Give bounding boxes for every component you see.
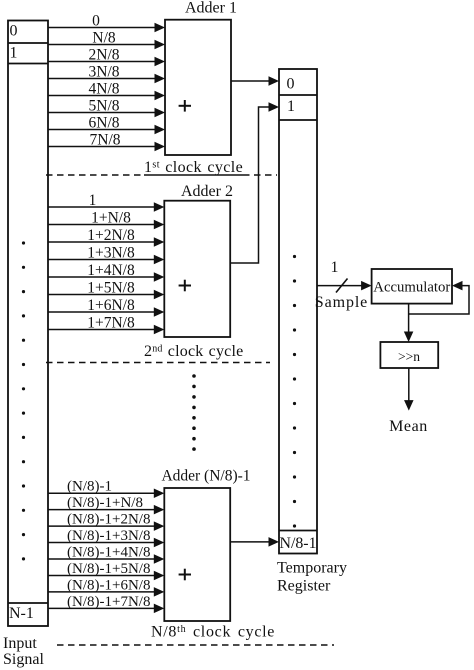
- svg-text:Signal: Signal: [3, 651, 44, 668]
- svg-text:3N/8: 3N/8: [89, 63, 120, 80]
- svg-text:N-1: N-1: [9, 605, 34, 622]
- svg-text:0: 0: [10, 23, 18, 40]
- svg-text:1+2N/8: 1+2N/8: [87, 227, 135, 244]
- svg-text:0: 0: [92, 12, 100, 29]
- svg-text:1: 1: [10, 45, 18, 62]
- svg-text:Adder 2: Adder 2: [181, 183, 233, 200]
- svg-text:(N/8)-1+7N/8: (N/8)-1+7N/8: [67, 594, 150, 610]
- svg-text:(N/8)-1+2N/8: (N/8)-1+2N/8: [67, 512, 150, 528]
- svg-text:7N/8: 7N/8: [90, 131, 121, 148]
- svg-text:(N/8)-1+5N/8: (N/8)-1+5N/8: [67, 561, 150, 577]
- svg-text:Adder 1: Adder 1: [185, 0, 237, 17]
- svg-text:N/8: N/8: [92, 29, 116, 46]
- svg-text:2N/8: 2N/8: [89, 46, 120, 63]
- svg-text:Mean: Mean: [389, 418, 428, 435]
- svg-text:Register: Register: [277, 578, 331, 595]
- svg-text:N/8th clock cycle: N/8th clock cycle: [151, 624, 275, 641]
- svg-text:Sample: Sample: [315, 294, 368, 311]
- svg-text:1+7N/8: 1+7N/8: [87, 314, 135, 331]
- svg-text:1: 1: [331, 259, 339, 276]
- svg-text:6N/8: 6N/8: [89, 114, 120, 131]
- svg-text:1: 1: [287, 98, 295, 115]
- svg-text:>>n: >>n: [398, 349, 420, 364]
- svg-text:(N/8)-1+3N/8: (N/8)-1+3N/8: [67, 528, 150, 544]
- svg-text:1+5N/8: 1+5N/8: [87, 279, 135, 296]
- svg-text:(N/8)-1+6N/8: (N/8)-1+6N/8: [67, 577, 150, 593]
- svg-text:0: 0: [287, 76, 295, 93]
- svg-text:1: 1: [89, 192, 97, 209]
- svg-text:Temporary: Temporary: [277, 560, 347, 577]
- svg-text:(N/8)-1+4N/8: (N/8)-1+4N/8: [67, 545, 150, 561]
- svg-text:(N/8)-1+N/8: (N/8)-1+N/8: [67, 495, 143, 511]
- svg-text:Adder (N/8)-1: Adder (N/8)-1: [161, 468, 250, 485]
- svg-text:5N/8: 5N/8: [89, 97, 120, 114]
- svg-text:1+4N/8: 1+4N/8: [87, 262, 135, 279]
- svg-text:1+6N/8: 1+6N/8: [87, 297, 135, 314]
- svg-text:Accumulator: Accumulator: [373, 280, 450, 296]
- svg-text:1+N/8: 1+N/8: [91, 209, 131, 226]
- svg-text:Input: Input: [3, 635, 37, 652]
- svg-text:N/8-1: N/8-1: [280, 535, 317, 552]
- svg-text:(N/8)-1: (N/8)-1: [67, 479, 112, 495]
- svg-text:1+3N/8: 1+3N/8: [87, 244, 135, 261]
- svg-text:4N/8: 4N/8: [89, 80, 120, 97]
